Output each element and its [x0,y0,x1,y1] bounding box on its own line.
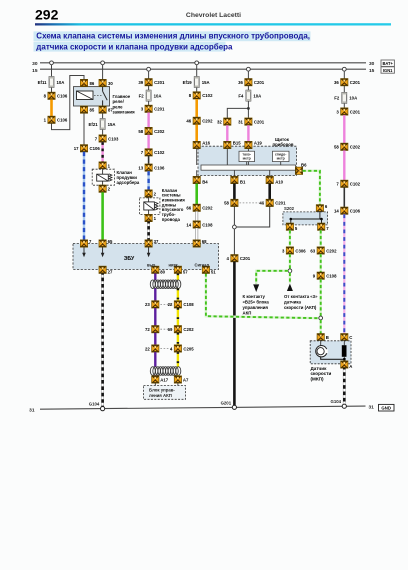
title highlight line 1 [34,31,311,41]
svg-text:292: 292 [35,7,59,23]
svg-text:C106: C106 [57,94,68,99]
connector 63 C202 [310,247,337,254]
wire join to node [234,207,269,228]
label from AT speed sensor [284,294,318,310]
S202 pin 6 [316,204,328,212]
purge valve box [92,169,114,185]
connector 8 C106 [44,92,68,99]
svg-text:C201: C201 [154,80,165,85]
connector 22 C205 [145,345,159,352]
connector 58 C202 [138,127,165,134]
node bus30 tap x51.5 [50,61,54,65]
svg-text:7: 7 [141,150,144,155]
svg-text:C106: C106 [154,165,165,170]
svg-text:10A: 10A [57,80,65,85]
ground G201 [221,401,237,410]
cluster pin B6 [295,162,307,174]
svg-text:63: 63 [310,248,315,253]
wire yellow to 4 C205 [177,333,179,345]
svg-text:3: 3 [282,248,285,253]
connector 9 C108 [313,272,337,279]
svg-text:C201: C201 [240,256,251,261]
wire to fuse F4 [247,86,249,91]
svg-text:31: 31 [238,119,243,124]
node green junction [288,269,292,273]
svg-text:68: 68 [202,239,207,244]
wire black [343,187,345,207]
wire purple to 72 C202 [154,308,156,326]
wire fuse to 3 C201 right [343,103,345,108]
connector 7 C102 [141,149,165,156]
svg-text:17: 17 [74,146,79,151]
wire green dashed to junction [289,254,291,269]
wire bus30 to fuse Ef19 [196,65,198,77]
cluster internal wires [197,149,297,177]
connector 31 C201 [238,118,265,125]
svg-text:36: 36 [334,80,339,85]
wire green dashed from ECU 51 [206,273,319,318]
wire pink [343,150,345,180]
svg-text:65: 65 [108,239,113,244]
speedometer box [273,151,290,161]
S202 box [283,212,328,225]
svg-text:1: 1 [108,163,111,168]
node junction F4 [247,107,250,110]
svg-text:C108: C108 [326,274,337,279]
svg-text:66: 66 [186,206,191,211]
label to AT control unit [243,294,270,315]
svg-text:приборов: приборов [273,142,294,147]
fuse F4 10A [238,90,261,101]
svg-text:A: A [349,364,352,369]
connector 14 C106 right [334,207,361,214]
svg-text:провода: провода [162,217,181,222]
connector 46 C201 [259,199,286,206]
svg-text:метр: метр [277,157,285,161]
svg-text:3: 3 [336,109,339,114]
wire to fuse F2 right [343,86,345,93]
svg-text:управления: управления [243,305,269,310]
wire fuse to 8 C102 [196,87,198,91]
svg-text:адсорбера: адсорбера [117,180,140,185]
svg-text:C202: C202 [154,129,165,134]
fuse F2 10A [139,90,162,101]
svg-text:ления АКП: ления АКП [149,393,172,398]
svg-text:13: 13 [138,165,143,170]
connector 17 C106 [74,145,101,152]
svg-text:36: 36 [238,80,243,85]
connector 69 C202 [168,326,195,333]
wire pink to cluster A19 [247,125,249,141]
svg-text:C201: C201 [254,119,265,124]
wire bus30 to fuse Ef11 [51,65,53,77]
wire to relay coil 86 [52,76,85,130]
svg-text:Ef11: Ef11 [38,80,47,85]
wire white to ECU pin 68 [195,228,198,240]
intake valve pin 1 [145,214,157,221]
wire yellow stub to A7 [177,374,179,377]
svg-text:скорости (АКП): скорости (АКП) [284,305,317,310]
svg-text:C201: C201 [254,80,265,85]
svg-text:8: 8 [44,94,47,99]
link dashed pair C202 [160,328,171,330]
ECU box [73,244,219,270]
S202 pin 7 [318,223,330,231]
relay coil-contact link [94,94,102,96]
svg-text:Ef19: Ef19 [183,80,193,85]
wire orange to cluster A16 [195,124,198,141]
wire green dashed branch to AT arrow [256,271,288,284]
connector 7 C102 right [336,180,360,187]
svg-text:30: 30 [108,81,113,86]
svg-text:58: 58 [138,129,143,134]
svg-text:ЭБУ: ЭБУ [124,256,135,262]
S202 internal bar [290,212,323,223]
ECU pin 65 [99,239,113,247]
wire orange [195,99,198,117]
svg-text:37: 37 [154,239,159,244]
svg-text:F2: F2 [139,93,145,98]
connector 32 [217,118,231,125]
svg-text:15A: 15A [108,122,116,127]
cluster pin B4 [193,176,208,184]
svg-text:низк.: низк. [169,263,179,268]
svg-text:C201: C201 [350,109,361,114]
node bus15 tap x248.4 [247,67,251,71]
ECU pin 7 [80,239,92,247]
connector 39 C201 [138,79,165,86]
relay coil [77,91,94,100]
svg-text:скорости: скорости [311,371,332,376]
svg-text:S202: S202 [284,206,295,211]
svg-text:B1: B1 [240,179,246,184]
wire fuse to 3 C201 [148,101,150,105]
twisted pair shield bottom [150,367,181,376]
svg-text:C201: C201 [350,80,361,85]
svg-text:B: B [326,335,329,340]
cluster pin A10 [266,176,284,184]
svg-text:6: 6 [325,204,328,209]
svg-text:15A: 15A [202,80,210,85]
wire green dashed junction down [289,273,291,284]
node bus30 tap x102.6 [101,61,105,65]
svg-text:30: 30 [369,61,375,67]
svg-text:30: 30 [32,61,38,67]
svg-text:датчика скорости и клапана про: датчика скорости и клапана продувки адсо… [36,42,233,51]
svg-text:C102: C102 [154,150,165,155]
connector 14 C108 [186,221,213,228]
connector 36 C201 [238,79,265,86]
speed sensor box [310,341,351,364]
wire purple to 23 C108 [154,288,156,300]
svg-text:C108: C108 [183,302,194,307]
svg-text:F2: F2 [334,96,340,101]
twisted pair shield top [150,280,181,289]
wire green dashed to junction [320,279,322,316]
ground G104 left [89,402,105,411]
relay pin 85 [80,106,94,113]
connector 66 C202 [186,204,213,211]
svg-text:10A: 10A [349,96,357,101]
svg-text:C306: C306 [295,248,306,253]
svg-text:(МКП): (МКП) [311,377,324,382]
S202 pin 5 [286,223,298,231]
wire pink-blue dashed to sensor pin C [343,214,345,333]
svg-text:72: 72 [145,327,150,332]
svg-text:8: 8 [189,93,192,98]
node bus15 tap x344.3 [342,67,346,71]
node black join [233,225,237,229]
wire 87 to fuse Ef21 [102,113,104,119]
cluster label [273,137,294,147]
ECU internal arrow pin65 [101,247,105,257]
svg-text:C202: C202 [183,327,194,332]
svg-text:зажигания: зажигания [113,110,136,115]
svg-text:C202: C202 [202,206,213,211]
svg-text:23: 23 [145,302,150,307]
svg-text:2: 2 [154,191,157,196]
link dashed pair C205 [160,348,171,350]
wire black-white sensor A to ground [343,368,346,404]
wire bus15 to 36 C201 [247,71,249,79]
ECU pin 68 [193,239,207,247]
svg-text:От контакта «3»: От контакта «3» [284,294,318,299]
fuse F2 10A right [334,93,357,104]
connector 46 C202 [186,117,213,124]
svg-text:Схема клапана системы изменени: Схема клапана системы изменения длины вп… [36,32,310,41]
relay pin 30 [99,79,113,86]
wire yellow down to shield [177,352,179,367]
ECU pin 27 [99,266,113,274]
connector 36 C201 right [334,79,361,86]
purge valve pin 1 [99,162,111,169]
speed sensor pin A [341,361,353,369]
ECU pin 80 label vyh [147,263,166,275]
wire green dashed to sensor pin B [320,320,322,334]
connector 8 C102 [189,92,213,99]
connector 23 C108 [145,301,159,308]
svg-text:Сигнал: Сигнал [195,263,210,268]
wire bus15 to 36 C201 right [343,71,345,79]
svg-text:«В25» блока: «В25» блока [243,300,270,305]
svg-text:15: 15 [369,68,375,74]
BAT+ tag [381,60,394,66]
svg-text:A16: A16 [202,140,210,145]
wire green dashed B6 to S202 pin 6 [303,171,320,205]
ECU pin 57 label nizk [169,263,189,275]
svg-text:46: 46 [186,119,191,124]
ECU pin 51 label signal [195,263,217,275]
arrow from AT speed sensor [287,284,293,291]
svg-text:датчика: датчика [284,300,302,305]
wire green to ECU pin 65 [101,192,104,240]
svg-text:14: 14 [334,209,339,214]
fuse Ef11 10A [38,77,65,88]
svg-text:C201: C201 [154,107,165,112]
svg-text:A7: A7 [183,377,189,382]
wire pink [147,135,149,149]
node bus30 tap x196.7 [195,61,199,65]
wire pink [147,112,149,127]
svg-text:C202: C202 [350,145,361,150]
svg-text:1: 1 [154,216,157,221]
connector 4 C201 [227,255,251,262]
svg-text:GND: GND [381,406,391,411]
svg-text:Chevrolet Lacetti: Chevrolet Lacetti [186,12,241,19]
wire pink [343,115,345,143]
svg-text:G104: G104 [330,399,341,404]
svg-text:A19: A19 [254,140,262,145]
svg-text:14: 14 [186,222,191,227]
wire black A10 down [268,184,271,200]
svg-text:31: 31 [29,408,35,414]
svg-text:C106: C106 [90,146,101,151]
wire green dashed to 9 C108 [320,254,322,272]
wire blue dashed to ECU pin 7 [83,152,85,240]
svg-text:К контакту: К контакту [243,294,266,299]
relay label [113,94,136,115]
intake valve label [162,188,185,222]
wire black thick to ground G201 [233,262,236,405]
cluster pin A19 [245,140,263,148]
arrow to AT control unit [253,284,259,292]
relay U1 box [74,87,110,106]
connector 3 C201 right [336,108,360,115]
svg-text:15: 15 [32,68,38,74]
wire pink-black to valve pin 1 [101,142,103,162]
svg-text:вых.: вых. [147,263,156,268]
svg-text:IGN1: IGN1 [383,68,393,73]
wire yellow to 69 C202 [177,308,179,326]
svg-text:C103: C103 [108,136,119,141]
wire black-white ECU 27 to ground [101,273,104,406]
svg-text:C102: C102 [202,93,213,98]
connector A7 [174,376,189,383]
connector 58 C202 right [334,143,361,150]
connector 22 C108 [168,301,195,308]
connector 1 C106 [44,116,68,123]
svg-text:АКП: АКП [243,310,252,315]
header rule [35,23,391,25]
svg-text:4: 4 [227,256,230,261]
wire fuse to 7 C103 [102,129,104,135]
AT control unit box [144,383,186,399]
svg-text:7: 7 [95,136,98,141]
wire purple stub to A17 [154,374,156,377]
svg-text:C106: C106 [350,209,361,214]
wire white [195,211,198,221]
wire black B1 down [233,184,236,200]
svg-text:10A: 10A [154,93,162,98]
wire bus30 to relay pin 30 [102,65,104,80]
GND tag [379,404,395,411]
wire black-white to ECU pin 37 [147,222,150,240]
svg-text:C: C [349,335,352,340]
purge valve pin 2 [99,185,111,192]
svg-text:Блок управ-: Блок управ- [149,387,175,392]
intake valve box [139,197,160,214]
svg-text:32: 32 [217,119,222,124]
speed sensor label [311,366,332,382]
relay contact [103,87,108,106]
svg-text:51: 51 [211,269,216,274]
svg-text:1: 1 [44,118,47,123]
wire purple ECU 80 down [154,273,156,280]
connector 13 C106 [138,164,165,171]
link dashed pair C201 [240,202,264,204]
svg-text:A10: A10 [275,179,283,184]
svg-text:Датчик: Датчик [311,366,328,371]
svg-text:80: 80 [160,269,165,274]
svg-text:метр: метр [243,157,251,161]
svg-text:7: 7 [336,182,339,187]
IGN1 tag [381,67,394,73]
svg-text:C106: C106 [57,118,68,123]
svg-text:10A: 10A [253,93,261,98]
wire yellow ECU 57 down [177,273,179,280]
connector 58 [224,199,238,206]
wire branch to connector 32 [227,108,248,118]
svg-text:58: 58 [334,145,339,150]
ground G104 right [330,399,346,408]
wire fuse to junction [247,101,249,118]
speed sensor pin C [341,334,353,341]
bus 30 [32,61,375,67]
svg-text:B6: B6 [301,162,307,167]
bus 31 ground [29,404,374,413]
svg-text:3: 3 [141,107,144,112]
svg-text:F4: F4 [238,93,244,98]
svg-text:2: 2 [108,187,111,192]
svg-text:G201: G201 [221,401,232,406]
svg-text:22: 22 [145,346,150,351]
wire bus15 to 39 C201 [148,71,150,79]
node green junction right [319,316,323,320]
title highlight line 2 [34,42,226,52]
svg-text:58: 58 [224,201,229,206]
connector 3 C201 [141,105,165,112]
cluster pin B15 [224,140,242,148]
cluster pin B1 [231,176,246,184]
tachometer box [239,151,255,161]
svg-text:Ef21: Ef21 [89,122,99,127]
connector A17 [152,376,169,383]
speed sensor pin B [317,334,329,341]
cluster pin A16 [193,140,211,148]
wire green B4 to 66 C202 [195,184,198,205]
wire orange [50,99,53,116]
svg-text:31: 31 [369,404,375,410]
wire blue dashed to valve pin 2 [147,171,149,190]
wire purple to 22 C205 [154,333,156,345]
relay pin 86 [80,79,94,86]
ECU internal arrow pin37 [147,247,151,257]
relay pin 87 [99,106,113,113]
svg-text:57: 57 [183,269,188,274]
svg-text:C201: C201 [275,201,286,206]
svg-text:39: 39 [138,80,143,85]
svg-text:A17: A17 [160,377,168,382]
svg-text:C202: C202 [326,248,337,253]
cluster internal bar [201,165,296,170]
svg-text:85: 85 [90,107,95,112]
purge valve label [117,170,140,185]
connector 72 C202 [145,326,159,333]
svg-text:9: 9 [313,274,316,279]
wire green dashed pin7 to 63 C202 [320,230,322,247]
svg-text:7: 7 [89,239,92,244]
wire node to 4 C201 [233,229,235,255]
